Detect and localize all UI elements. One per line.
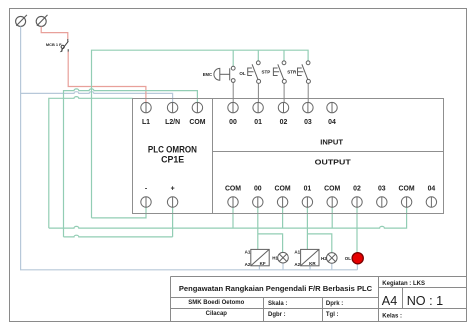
wire green input COM line [64, 89, 198, 237]
wire blue H1 bottom stub [282, 263, 284, 270]
wire blue KR bottom stub [309, 266, 311, 270]
phase terminal X2 [36, 15, 47, 27]
start button STR [298, 61, 311, 84]
svg-text:04: 04 [428, 186, 436, 193]
terminal minus [141, 197, 151, 207]
wire green output 01 to KR with branch to H2 [307, 207, 331, 253]
emergency button EMC [214, 66, 235, 82]
svg-text:Dgbr :: Dgbr : [268, 312, 286, 318]
wire gray EMC to input 00 [232, 82, 234, 102]
wire gray STP to input 02 [283, 83, 285, 102]
svg-text:00: 00 [229, 119, 237, 126]
svg-text:01: 01 [254, 119, 262, 126]
wire blue KF bottom stub [258, 266, 260, 270]
wire blue H2 bottom stub [331, 263, 333, 270]
svg-text:Pengawatan Rangkaian Pengendal: Pengawatan Rangkaian Pengendali F/R Berb… [179, 284, 373, 293]
svg-text:03: 03 [378, 186, 386, 193]
pilot lamp OL red [352, 253, 363, 264]
phase terminal X1 [16, 15, 27, 27]
svg-text:COM: COM [189, 119, 205, 126]
wire blue OL lamp bottom stub [356, 264, 358, 270]
wire green output COM bus [49, 207, 407, 228]
terminal input 03 [303, 102, 313, 112]
svg-text:INPUT: INPUT [320, 138, 343, 147]
wire green rail drop to STP [283, 50, 285, 61]
svg-text:Skala :: Skala : [268, 301, 287, 307]
lamp H1 [278, 252, 289, 263]
svg-text:Tgl :: Tgl : [326, 312, 339, 318]
terminal out COM c [327, 197, 337, 207]
wire phase red from X2 to MCB [41, 27, 68, 40]
wire green output 00 to KF with branch to H1 [258, 207, 283, 253]
svg-text:Cilacap: Cilacap [206, 311, 228, 317]
svg-text:COM: COM [275, 186, 291, 193]
svg-text:COM: COM [225, 186, 241, 193]
svg-text:Dprk :: Dprk : [326, 301, 343, 307]
svg-text:L1: L1 [142, 119, 150, 126]
labels top terminals [142, 119, 336, 126]
svg-text:EMC: EMC [203, 72, 212, 77]
terminals bottom row [141, 197, 437, 207]
relay coil KF [251, 249, 269, 265]
terminal out COM b [277, 197, 287, 207]
terminal input 00 [228, 102, 238, 112]
stop button STP [273, 61, 286, 84]
svg-text:KF: KF [260, 261, 266, 266]
bump fix on com line at 76.4 low [64, 235, 173, 237]
wire green COM stub 1 [232, 207, 234, 228]
svg-text:COM: COM [324, 186, 340, 193]
lamp H2 [327, 253, 338, 264]
svg-text:00: 00 [254, 186, 262, 193]
svg-text:02: 02 [353, 186, 361, 193]
svg-text:Kegiatan : LKS: Kegiatan : LKS [382, 281, 425, 287]
svg-text:SMK Boedi Oetomo: SMK Boedi Oetomo [188, 300, 244, 306]
terminals top row [141, 102, 337, 112]
svg-text:OUTPUT: OUTPUT [315, 158, 351, 167]
wire green top rail [92, 50, 309, 218]
svg-text:COM: COM [399, 186, 415, 193]
wire green plus terminal drop [172, 207, 174, 237]
svg-text:02: 02 [280, 119, 288, 126]
terminal out 04 [426, 197, 436, 207]
svg-text:NO : 1: NO : 1 [407, 294, 443, 308]
wire green output 02 to OL lamp [356, 207, 358, 252]
svg-text:A1: A1 [245, 249, 251, 254]
svg-text:STP: STP [262, 70, 271, 75]
terminal L1 [141, 102, 151, 112]
wire gray OL to input 01 [257, 83, 259, 102]
svg-text:OL: OL [239, 71, 246, 76]
terminal out 00 [253, 197, 263, 207]
wire green COM stub 3 [331, 207, 333, 228]
svg-text:A4: A4 [382, 294, 397, 308]
svg-text:04: 04 [328, 119, 336, 126]
terminal plus [167, 197, 177, 207]
svg-text:Kelas :: Kelas : [382, 313, 402, 319]
terminal out 01 [302, 197, 312, 207]
terminal COM input [192, 102, 202, 112]
terminal input 02 [278, 102, 288, 112]
svg-text:CP1E: CP1E [161, 154, 184, 165]
wire green COM stub 2 [282, 207, 284, 228]
wire neutral blue vertical and bottom rail [21, 27, 358, 270]
wire green rail drop to OL contact [257, 50, 259, 61]
svg-text:+: + [171, 186, 175, 193]
terminal out COM d [401, 197, 411, 207]
svg-text:A2: A2 [294, 262, 300, 267]
wire phase red from MCB to L1 [68, 52, 146, 103]
wire gray STR to input 03 [307, 83, 309, 102]
title block [171, 277, 467, 322]
svg-text:OL: OL [345, 256, 352, 261]
terminal L2/N [167, 102, 177, 112]
wire green PLC corner line [49, 97, 133, 229]
svg-text:STR: STR [287, 70, 297, 75]
terminal out 02 [352, 197, 362, 207]
overload contact OL [248, 61, 261, 84]
labels bottom terminals [145, 186, 436, 193]
terminal out COM a [228, 197, 238, 207]
terminal input 01 [253, 102, 263, 112]
svg-text:03: 03 [304, 119, 312, 126]
svg-text:01: 01 [304, 186, 312, 193]
MCB 1F breaker [60, 39, 69, 52]
wire green rail drop to EMC [232, 50, 234, 66]
svg-text:A2: A2 [245, 262, 251, 267]
PLC CP1E body [133, 99, 444, 214]
terminal input 04 [327, 102, 337, 112]
relay coil KR [301, 249, 319, 265]
terminal out 03 [377, 197, 387, 207]
svg-text:MCB 1 F: MCB 1 F [46, 42, 62, 47]
wire neutral blue to L2/N [21, 92, 173, 103]
svg-text:KR: KR [309, 261, 316, 266]
wire green minus terminal link [92, 207, 147, 218]
svg-text:A1: A1 [294, 249, 300, 254]
svg-text:H1: H1 [272, 256, 278, 261]
svg-text:L2/N: L2/N [165, 119, 180, 126]
svg-text:H2: H2 [321, 256, 327, 261]
